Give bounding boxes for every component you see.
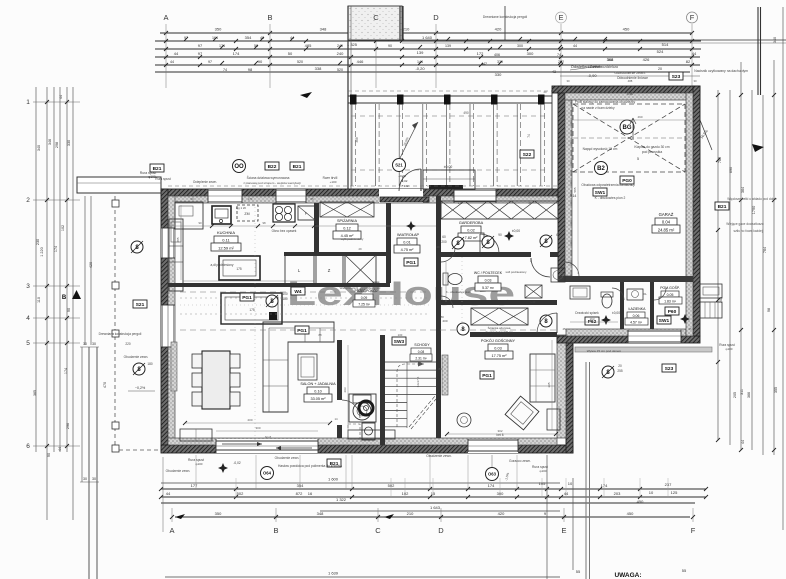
svg-text:60: 60 bbox=[556, 233, 560, 237]
svg-text:177: 177 bbox=[191, 483, 198, 488]
svg-text:296: 296 bbox=[66, 423, 70, 429]
svg-text:0.05: 0.05 bbox=[667, 293, 674, 297]
wall guest top bbox=[470, 332, 557, 337]
section circle g2 bbox=[540, 315, 552, 327]
svg-text:B2: B2 bbox=[597, 166, 605, 172]
svg-text:175: 175 bbox=[236, 267, 242, 271]
svg-text:5.37 m²: 5.37 m² bbox=[482, 286, 495, 290]
svg-text:100: 100 bbox=[398, 333, 403, 337]
svg-text:420: 420 bbox=[498, 511, 505, 516]
svg-text:74: 74 bbox=[557, 53, 561, 57]
marker S21 left bbox=[133, 300, 147, 308]
svg-text:PG1: PG1 bbox=[482, 373, 492, 379]
svg-text:30: 30 bbox=[83, 477, 87, 481]
marker right circ bbox=[595, 162, 608, 175]
svg-text:KUCHNIA: KUCHNIA bbox=[217, 230, 235, 235]
svg-text:180: 180 bbox=[282, 297, 288, 301]
interior dim chain wc bbox=[445, 262, 447, 302]
svg-text:524: 524 bbox=[657, 49, 664, 54]
svg-text:55: 55 bbox=[576, 569, 581, 574]
svg-text:OO: OO bbox=[234, 164, 244, 170]
svg-text:D: D bbox=[438, 526, 444, 535]
svg-text:Odwodnienie zewn.: Odwodnienie zewn. bbox=[614, 71, 645, 75]
svg-text:Wiejące gace docisztłuszu: Wiejące gace docisztłuszu bbox=[726, 222, 764, 226]
wing SW1 bbox=[657, 316, 671, 324]
svg-text:Wielgota wiszij...pu podbrempi: Wielgota wiszij...pu podbrempiec bbox=[340, 286, 381, 290]
svg-text:Rura spust: Rura spust bbox=[155, 177, 171, 181]
svg-text:0.02: 0.02 bbox=[467, 229, 474, 233]
kitchen dim lines bbox=[168, 225, 436, 227]
svg-text:90: 90 bbox=[198, 221, 202, 225]
svg-text:174: 174 bbox=[233, 51, 240, 56]
svg-text:490: 490 bbox=[463, 111, 469, 115]
svg-text:44: 44 bbox=[170, 60, 174, 64]
svg-text:470: 470 bbox=[103, 382, 107, 388]
svg-text:1 643: 1 643 bbox=[430, 505, 441, 510]
svg-text:346: 346 bbox=[48, 139, 52, 145]
terrace dashed lines bbox=[351, 115, 548, 117]
garderoba wardrobe bbox=[441, 201, 558, 219]
svg-text:SW3: SW3 bbox=[394, 339, 405, 345]
wall vestibule left bbox=[386, 203, 391, 283]
wc sink right bbox=[551, 268, 565, 282]
svg-text:1 639: 1 639 bbox=[328, 571, 339, 576]
marker OO bbox=[233, 160, 246, 173]
svg-text:±0,00: ±0,00 bbox=[444, 165, 453, 169]
svg-text:B21: B21 bbox=[718, 204, 727, 210]
interior dim chain guest bbox=[447, 433, 556, 435]
svg-text:1.83 m²: 1.83 m² bbox=[664, 300, 677, 304]
garage inner dashed line bbox=[570, 100, 572, 276]
svg-text:330: 330 bbox=[67, 140, 71, 146]
svg-text:1 322: 1 322 bbox=[336, 497, 347, 502]
svg-text:30: 30 bbox=[92, 342, 96, 346]
svg-text:a,dł podniesiony: a,dł podniesiony bbox=[210, 263, 233, 267]
svg-text:1 640: 1 640 bbox=[422, 35, 433, 40]
section circle g1 bbox=[457, 323, 469, 335]
svg-text:K - obudowies pion 2: K - obudowies pion 2 bbox=[595, 196, 626, 200]
dishwasher ZM dashed bbox=[237, 205, 258, 221]
svg-text:4: 4 bbox=[26, 315, 30, 322]
svg-text:98: 98 bbox=[248, 67, 253, 72]
svg-text:±0,00: ±0,00 bbox=[612, 311, 620, 315]
wall garage left bbox=[558, 86, 565, 281]
svg-text:0,14: 0,14 bbox=[570, 194, 577, 198]
svg-text:1: 1 bbox=[26, 99, 30, 106]
svg-text:16: 16 bbox=[308, 491, 313, 496]
svg-text:7.82 m²: 7.82 m² bbox=[465, 236, 479, 240]
svg-text:5: 5 bbox=[26, 340, 30, 347]
svg-text:hrv 8: hrv 8 bbox=[265, 435, 272, 439]
terrace slab edge below wing bbox=[575, 347, 712, 352]
svg-text:-1,5%: -1,5% bbox=[504, 472, 510, 481]
svg-text:210: 210 bbox=[407, 511, 414, 516]
svg-text:A: A bbox=[169, 526, 174, 535]
svg-text:450: 450 bbox=[623, 27, 630, 32]
svg-text:17.75 m²: 17.75 m² bbox=[492, 354, 508, 358]
svg-text:45: 45 bbox=[562, 327, 566, 331]
window top pantry bbox=[276, 189, 306, 203]
svg-text:163: 163 bbox=[589, 317, 594, 321]
pantry shelving X bbox=[320, 202, 374, 217]
svg-text:44: 44 bbox=[58, 447, 62, 451]
section circle bbox=[602, 366, 614, 378]
svg-text:90: 90 bbox=[67, 308, 71, 312]
svg-text:SCHODY: SCHODY bbox=[414, 343, 430, 347]
marker B21 bottom bbox=[327, 459, 341, 467]
svg-text:S23: S23 bbox=[665, 366, 674, 372]
slope arrow bbox=[400, 122, 418, 158]
svg-text:30: 30 bbox=[693, 79, 697, 83]
svg-text:z pianową pod stropem - wejści: z pianową pod stropem - wejścia wentylac… bbox=[243, 181, 301, 185]
svg-text:24.85 m²: 24.85 m² bbox=[658, 228, 675, 233]
svg-text:B22: B22 bbox=[268, 164, 277, 170]
svg-text:0.06: 0.06 bbox=[633, 314, 640, 318]
corridor X cabinet bbox=[471, 308, 528, 325]
star pomgosp bbox=[680, 314, 690, 324]
svg-text:98: 98 bbox=[767, 308, 771, 312]
wall garage top bbox=[552, 86, 700, 93]
svg-text:L: L bbox=[298, 268, 301, 273]
svg-text:PG1: PG1 bbox=[242, 295, 252, 301]
svg-text:44: 44 bbox=[573, 44, 577, 48]
svg-text:125: 125 bbox=[671, 490, 678, 495]
svg-text:203: 203 bbox=[614, 491, 621, 496]
top dimension lines bbox=[160, 32, 692, 34]
lazienka bbox=[627, 289, 643, 300]
entrance recess opening bbox=[379, 189, 423, 203]
svg-text:WC / POILTECEK: WC / POILTECEK bbox=[474, 271, 503, 275]
bottom extension verticals bbox=[546, 455, 548, 579]
svg-text:872: 872 bbox=[296, 491, 303, 496]
svg-text:80: 80 bbox=[528, 201, 532, 205]
svg-text:285: 285 bbox=[176, 237, 180, 242]
svg-text:Drzwiczki spisek: Drzwiczki spisek bbox=[575, 311, 599, 315]
svg-text:354: 354 bbox=[245, 35, 252, 40]
svg-text:Wylew 15 cm pod oknem: Wylew 15 cm pod oknem bbox=[587, 349, 622, 353]
svg-text:175: 175 bbox=[249, 308, 255, 312]
svg-text:OL: OL bbox=[643, 292, 647, 296]
svg-text:6: 6 bbox=[26, 443, 30, 450]
svg-text:50: 50 bbox=[288, 51, 293, 56]
wing P60 bbox=[665, 307, 679, 315]
svg-text:SW1: SW1 bbox=[595, 190, 606, 196]
window left salon bbox=[161, 305, 175, 347]
svg-text:490: 490 bbox=[637, 115, 642, 119]
svg-text:−0,2%: −0,2% bbox=[135, 386, 146, 390]
marker O63 bbox=[486, 468, 499, 481]
svg-text:200: 200 bbox=[247, 418, 252, 422]
star wing hall bbox=[601, 315, 611, 325]
wall corridor top bbox=[168, 283, 390, 287]
vestibule PG1 bbox=[404, 258, 418, 266]
svg-text:Hasłow powiódca pod polimerka: Hasłow powiódca pod polimerka do komisia bbox=[278, 464, 342, 468]
svg-text:1 325: 1 325 bbox=[347, 42, 358, 47]
left aux verticals bbox=[84, 196, 86, 345]
bottom dimension lines bbox=[161, 482, 560, 484]
wall kitchen/pantry bbox=[314, 203, 319, 256]
svg-text:1 220: 1 220 bbox=[40, 247, 44, 257]
svg-text:85: 85 bbox=[310, 197, 314, 201]
wall right of guest room bbox=[566, 335, 573, 453]
post bbox=[350, 95, 357, 105]
svg-text:90: 90 bbox=[498, 233, 502, 237]
garage dashed cross bbox=[573, 104, 685, 172]
recessed entrance wall bbox=[380, 197, 429, 202]
svg-text:33.05 m²: 33.05 m² bbox=[311, 397, 327, 401]
svg-text:220: 220 bbox=[125, 342, 131, 346]
toilet bbox=[448, 274, 462, 285]
svg-text:502: 502 bbox=[388, 483, 395, 488]
svg-text:29: 29 bbox=[436, 245, 440, 249]
door arc garderoba bbox=[441, 248, 455, 262]
section circle bbox=[540, 235, 552, 247]
svg-text:16,5%: 16,5% bbox=[699, 129, 709, 140]
svg-text:GARDEROBA: GARDEROBA bbox=[459, 221, 484, 225]
svg-text:311: 311 bbox=[740, 389, 744, 395]
wall top (dark+insulation) bbox=[161, 189, 565, 196]
svg-text:4.57 m²: 4.57 m² bbox=[630, 321, 643, 325]
svg-text:338: 338 bbox=[315, 66, 322, 71]
svg-text:PG1: PG1 bbox=[406, 260, 416, 266]
svg-text:-0,02: -0,02 bbox=[233, 461, 240, 465]
svg-text:97: 97 bbox=[208, 60, 212, 64]
svg-text:0.03: 0.03 bbox=[494, 347, 501, 351]
svg-text:330: 330 bbox=[495, 72, 502, 77]
svg-text:Drewniane konstrukcja pergoli: Drewniane konstrukcja pergoli bbox=[483, 15, 527, 19]
svg-text:P: P bbox=[305, 212, 307, 216]
wall garderoba/wc vertical bbox=[436, 196, 441, 312]
svg-text:44: 44 bbox=[692, 51, 697, 56]
window bottom guest bbox=[468, 439, 518, 453]
post bbox=[538, 95, 545, 105]
svg-text:Profil stalowy do zamocowania: Profil stalowy do zamocowania obudzieżky bbox=[575, 100, 636, 104]
svg-text:bet 8: bet 8 bbox=[496, 433, 503, 437]
svg-text:L40: L40 bbox=[531, 300, 536, 304]
svg-text:170: 170 bbox=[248, 197, 253, 201]
svg-text:50: 50 bbox=[190, 197, 194, 201]
big sliding glass door bottom salon bbox=[216, 439, 318, 453]
svg-text:14: 14 bbox=[334, 417, 338, 421]
svg-text:Więcksze belki u wkładu pod do: Więcksze belki u wkładu pod dolne bbox=[727, 197, 777, 201]
svg-text:B: B bbox=[273, 526, 278, 535]
svg-text:365: 365 bbox=[33, 390, 37, 396]
guest side table bbox=[547, 409, 560, 430]
svg-text:348: 348 bbox=[320, 27, 327, 32]
svg-text:12.59 m²: 12.59 m² bbox=[218, 246, 234, 251]
svg-text:SPIŻARNIA: SPIŻARNIA bbox=[337, 218, 358, 223]
door arc garderoba-wc bbox=[531, 258, 550, 277]
svg-text:24: 24 bbox=[560, 247, 564, 251]
svg-text:Z: Z bbox=[328, 268, 331, 273]
stairs diagonal cut bbox=[409, 396, 435, 427]
fireplace block bbox=[349, 394, 376, 422]
entrance platform bbox=[423, 170, 475, 189]
terrace rafters bbox=[351, 104, 353, 186]
interior dim chain kitchen vertical bbox=[180, 205, 182, 280]
appliance P bbox=[298, 206, 315, 220]
svg-text:Napęd wysokość 15 cm: Napęd wysokość 15 cm bbox=[583, 147, 618, 151]
svg-text:Drewniana konstrukcja pergoli: Drewniana konstrukcja pergoli bbox=[99, 332, 142, 336]
tv bench bbox=[348, 430, 395, 439]
terrace beam top bbox=[348, 95, 552, 97]
flue box bbox=[362, 423, 375, 440]
door arc lazienka bbox=[612, 288, 624, 300]
svg-text:450: 450 bbox=[637, 499, 644, 504]
marker S23 bbox=[669, 72, 683, 80]
roof overhang dashed line bbox=[114, 196, 116, 450]
svg-text:UWAGA:: UWAGA: bbox=[614, 572, 641, 579]
svg-text:60: 60 bbox=[442, 235, 446, 239]
svg-text:44: 44 bbox=[741, 440, 745, 444]
svg-text:Obudzenie zewn.: Obudzenie zewn. bbox=[124, 355, 149, 359]
svg-text:200: 200 bbox=[442, 319, 447, 323]
marker B22 bbox=[265, 162, 279, 170]
svg-text:soft podniesiony: soft podniesiony bbox=[506, 270, 527, 274]
marker W4 bbox=[291, 287, 305, 295]
outside steps right bbox=[700, 284, 722, 298]
door arc vestibule-garderoba bbox=[480, 234, 499, 253]
svg-text:Obudzenie zewn.: Obudzenie zewn. bbox=[426, 454, 452, 458]
svg-text:45: 45 bbox=[688, 327, 692, 331]
section circle bbox=[452, 237, 464, 249]
section marker B bbox=[131, 241, 143, 253]
compass star 2 bbox=[504, 231, 514, 241]
svg-text:4,90: 4,90 bbox=[627, 92, 634, 96]
svg-text:174: 174 bbox=[488, 483, 495, 488]
svg-text:210: 210 bbox=[403, 27, 410, 32]
svg-text:690: 690 bbox=[729, 167, 733, 173]
svg-text:200: 200 bbox=[441, 240, 447, 244]
svg-text:pod pewustka: pod pewustka bbox=[642, 150, 663, 154]
wall bottom bbox=[161, 445, 573, 453]
svg-text:0.08: 0.08 bbox=[418, 350, 425, 354]
svg-text:ŁAZIENKA: ŁAZIENKA bbox=[629, 307, 647, 311]
svg-text:98: 98 bbox=[390, 197, 394, 201]
svg-text:44: 44 bbox=[174, 51, 179, 56]
svg-text:300: 300 bbox=[255, 426, 260, 430]
svg-text:PG1: PG1 bbox=[297, 328, 307, 334]
svg-text:B: B bbox=[267, 13, 272, 22]
svg-text:φ100: φ100 bbox=[726, 347, 733, 351]
svg-text:350: 350 bbox=[215, 511, 222, 516]
svg-text:BG: BG bbox=[623, 125, 632, 131]
wall wing bath 2 bbox=[650, 282, 654, 329]
stairs treads left flight bbox=[385, 361, 407, 363]
svg-text:420: 420 bbox=[89, 262, 93, 268]
svg-text:Odwodnienie liniowe: Odwodnienie liniowe bbox=[617, 76, 648, 80]
svg-text:Obudzenie zewn.: Obudzenie zewn. bbox=[275, 456, 300, 460]
section circle bbox=[482, 236, 494, 248]
svg-text:ZM: ZM bbox=[244, 212, 249, 216]
svg-text:74: 74 bbox=[527, 134, 531, 138]
svg-text:230: 230 bbox=[36, 239, 40, 245]
svg-text:764: 764 bbox=[763, 247, 767, 253]
svg-text:20: 20 bbox=[543, 90, 547, 94]
post bbox=[397, 95, 404, 105]
interior dim chain salon bbox=[347, 345, 349, 436]
svg-text:φ100: φ100 bbox=[540, 469, 547, 473]
svg-text:O64: O64 bbox=[263, 471, 272, 476]
svg-text:Ocieplenie zewn.: Ocieplenie zewn. bbox=[193, 180, 217, 184]
window top garderoba bbox=[454, 189, 496, 203]
window top kitchen bbox=[208, 189, 242, 203]
entrance S21 marker bbox=[393, 159, 406, 172]
stairs walk line bbox=[397, 364, 424, 427]
svg-text:φ100: φ100 bbox=[196, 462, 203, 466]
door arc guest bbox=[537, 313, 557, 333]
svg-text:90: 90 bbox=[258, 59, 263, 64]
svg-text:174: 174 bbox=[64, 368, 68, 374]
svg-text:Obudowa odpowietrzenia kanaliz: Obudowa odpowietrzenia kanalizacji bbox=[581, 183, 635, 187]
marker O64 bbox=[261, 467, 274, 480]
svg-text:44: 44 bbox=[59, 95, 63, 99]
svg-text:WIATROŁAP: WIATROŁAP bbox=[397, 233, 420, 237]
svg-text:-0,90: -0,90 bbox=[587, 73, 597, 78]
svg-text:348: 348 bbox=[317, 511, 324, 516]
guest chair circle bbox=[457, 413, 471, 427]
svg-text:B21: B21 bbox=[153, 166, 162, 172]
svg-text:446: 446 bbox=[357, 59, 364, 64]
svg-text:10: 10 bbox=[649, 490, 654, 495]
svg-text:139: 139 bbox=[417, 50, 424, 55]
svg-text:10: 10 bbox=[568, 481, 573, 486]
svg-text:Obudzenie zewn.: Obudzenie zewn. bbox=[166, 469, 191, 473]
pantry boxes L Z bbox=[285, 255, 314, 285]
svg-text:82: 82 bbox=[686, 59, 691, 64]
svg-text:174: 174 bbox=[54, 246, 58, 252]
svg-text:E: E bbox=[561, 526, 566, 535]
svg-text:139: 139 bbox=[445, 44, 451, 48]
svg-text:80: 80 bbox=[438, 367, 442, 371]
svg-text:20: 20 bbox=[618, 364, 622, 368]
wall wc bottom bbox=[436, 300, 557, 305]
svg-text:364: 364 bbox=[741, 187, 745, 193]
post bbox=[444, 95, 451, 105]
svg-text:Ściana działowa wymurowana: Ściana działowa wymurowana bbox=[247, 175, 290, 180]
svg-text:Klapias do gazdu 30 cm: Klapias do gazdu 30 cm bbox=[634, 145, 669, 149]
svg-text:S23: S23 bbox=[672, 74, 681, 80]
svg-text:98: 98 bbox=[262, 221, 266, 225]
svg-text:585: 585 bbox=[573, 187, 577, 192]
svg-text:240: 240 bbox=[337, 51, 344, 56]
svg-text:44: 44 bbox=[564, 491, 569, 496]
svg-text:102: 102 bbox=[61, 225, 65, 231]
svg-text:300: 300 bbox=[517, 44, 523, 48]
svg-text:3: 3 bbox=[26, 283, 30, 290]
svg-text:90: 90 bbox=[388, 44, 392, 48]
svg-text:S21: S21 bbox=[395, 163, 403, 168]
svg-text:0.04: 0.04 bbox=[662, 220, 671, 225]
svg-text:255: 255 bbox=[617, 369, 623, 373]
marker S22 terrace bbox=[520, 150, 534, 158]
garage BG marker bbox=[620, 120, 634, 134]
fireplace bbox=[353, 402, 371, 420]
svg-text:30: 30 bbox=[566, 79, 570, 83]
svg-text:442: 442 bbox=[481, 62, 487, 66]
svg-text:POM.GOŚP.: POM.GOŚP. bbox=[660, 285, 680, 290]
svg-text:do wysokości 220 cm: do wysokości 220 cm bbox=[485, 330, 513, 334]
svg-text:340: 340 bbox=[773, 37, 777, 43]
svg-text:30: 30 bbox=[83, 342, 87, 346]
marker B21 a bbox=[150, 164, 164, 172]
radiator left bbox=[171, 342, 177, 391]
svg-text:+0,00: +0,00 bbox=[398, 174, 406, 178]
svg-text:2.31 m²: 2.31 m² bbox=[415, 357, 427, 361]
guest radiator bbox=[442, 355, 448, 395]
svg-text:7.25 m²: 7.25 m² bbox=[358, 303, 370, 307]
window wing bottom bbox=[628, 330, 681, 343]
